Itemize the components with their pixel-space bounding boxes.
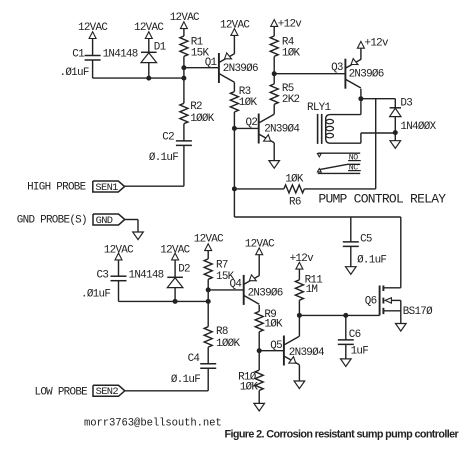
wire C3 to bus: [118, 281, 120, 302]
svg-text:C1: C1: [72, 48, 85, 60]
wire R9 to node: [258, 332, 260, 351]
svg-text:D1: D1: [154, 41, 167, 53]
ground C6: [341, 359, 352, 367]
value 15K (R7): [216, 271, 235, 283]
wire rail down to Q6 drain: [400, 217, 402, 288]
label Q2: [246, 117, 258, 129]
junction R6 left node: [232, 186, 237, 191]
junction bus-R8: [206, 299, 211, 304]
junction bus-R2: [181, 76, 186, 81]
wire Q4 emitter up: [258, 255, 260, 276]
svg-text:Q2: Q2: [246, 117, 258, 129]
wire gate node to C6: [345, 315, 347, 340]
svg-text:PUMP CONTROL RELAY: PUMP CONTROL RELAY: [318, 191, 446, 206]
value 1uF (C6): [351, 346, 369, 358]
wire D2 to bus: [174, 288, 176, 302]
wire R7 to node: [207, 279, 209, 290]
connector GND: [93, 214, 125, 227]
relay contact NC line: [318, 172, 360, 174]
wire SEN1 to C2: [125, 185, 184, 187]
svg-text:Ø.1uF: Ø.1uF: [171, 374, 200, 386]
wire coil bottom to D3 node: [361, 132, 395, 134]
svg-text:D2: D2: [178, 264, 190, 276]
value 10K (R3): [239, 97, 258, 109]
label R11: [305, 274, 324, 286]
svg-text:R8: R8: [216, 326, 228, 338]
wire GND tag: [125, 220, 138, 233]
label D3: [400, 98, 412, 110]
junction C6-gate: [343, 313, 348, 318]
capacitor C1: [85, 56, 101, 61]
connector SEN2: [93, 385, 125, 398]
label R2: [190, 101, 202, 113]
wire C1 to bus: [92, 60, 94, 78]
value .01uF (C1): [60, 67, 89, 79]
wire gate node to Q6: [299, 314, 379, 316]
label R7: [216, 260, 228, 272]
wire Q1 emitter up: [233, 35, 235, 54]
power 12VAC arrow (Q1): [231, 29, 238, 36]
wire bus C1-D1-R2 node: [93, 77, 184, 79]
power +12v label (R4): [278, 18, 303, 30]
label Q5: [270, 340, 282, 352]
power +12v arrow (R11): [296, 262, 303, 269]
junction R9-R10-Q5 base: [257, 348, 262, 353]
power 12VAC arrow (D1 column): [145, 32, 152, 39]
label GND PROBE(S): [17, 214, 87, 226]
label 1N4148 (D1): [103, 48, 138, 60]
svg-text:2N39Ø4: 2N39Ø4: [264, 123, 299, 135]
connector SEN1: [93, 181, 125, 194]
wire node to bus: [207, 290, 209, 302]
wire node to D3: [394, 99, 396, 108]
svg-text:12VAC: 12VAC: [245, 239, 275, 251]
wire R11 to gate node: [298, 300, 300, 315]
label D1: [154, 41, 167, 53]
wire SEN2 to C4: [125, 390, 208, 392]
label 2N3904 (Q5): [289, 347, 324, 359]
label Q3: [331, 62, 343, 74]
value 100K (R8): [216, 338, 241, 350]
label Q6: [365, 296, 377, 308]
svg-text:1M: 1M: [306, 284, 318, 296]
svg-text:1N4148: 1N4148: [129, 270, 164, 282]
svg-text:R6: R6: [289, 197, 301, 209]
svg-text:C6: C6: [349, 329, 361, 341]
label HIGH PROBE: [27, 181, 86, 193]
relay contact NO line: [318, 152, 360, 154]
transistor Q5 2N3904: [284, 336, 300, 366]
svg-text:12VAC: 12VAC: [170, 12, 200, 24]
wire coil bottom jog: [360, 133, 362, 143]
power 12VAC label (C1 column): [78, 22, 108, 34]
capacitor C6: [338, 340, 354, 345]
power +12v arrow (Q3): [357, 41, 364, 48]
svg-text:1N4148: 1N4148: [103, 48, 138, 60]
svg-text:2N39Ø6: 2N39Ø6: [223, 63, 258, 75]
label 2N3906 (Q3): [349, 69, 384, 81]
svg-text:Figure 2. Corrosion resistant: Figure 2. Corrosion resistant sump pump …: [225, 429, 460, 441]
value 0.1uF (C5): [357, 254, 386, 266]
junction R1-R2-Q1 base: [181, 65, 186, 70]
resistor R8: [204, 327, 212, 347]
wire node down to bottom rail: [233, 189, 235, 217]
wire D3 to relay bottom node: [394, 117, 396, 133]
resistor R11: [295, 280, 303, 300]
wire Q1 collector to R3: [233, 82, 235, 91]
power 12VAC label (Q1): [220, 20, 250, 32]
wire node to Q3 base: [274, 73, 345, 75]
power +12v label (Q3): [365, 37, 390, 49]
wire node to R6: [234, 188, 284, 190]
resistor R2: [180, 103, 188, 123]
wire C6 to ground: [345, 344, 347, 359]
power 12VAC arrow (C3 column): [115, 253, 122, 260]
wire node down to bus: [183, 68, 185, 78]
junction R11-Q5-gate: [297, 313, 302, 318]
label PUMP CONTROL RELAY: [318, 191, 446, 206]
svg-text:C5: C5: [360, 233, 372, 245]
label C6: [349, 329, 361, 341]
svg-text:1N4ØØX: 1N4ØØX: [400, 121, 436, 133]
wire bottom rail to Q6 drain: [234, 216, 400, 218]
label R5: [282, 83, 294, 95]
junction D2-bus: [173, 299, 178, 304]
wire bus to R8: [207, 301, 209, 326]
power 12VAC label (R1 column): [170, 12, 200, 24]
svg-text:+12v: +12v: [365, 37, 390, 49]
svg-text:1ØK: 1ØK: [282, 48, 301, 60]
svg-text:1ØK: 1ØK: [264, 319, 283, 331]
svg-text:HIGH PROBE: HIGH PROBE: [27, 181, 86, 193]
label Q1: [205, 57, 218, 69]
value 0.1uF (C4): [171, 374, 200, 386]
svg-text:12VAC: 12VAC: [194, 233, 224, 245]
value 1N400X (D3): [400, 121, 436, 133]
power 12VAC arrow (R7 column): [205, 244, 212, 251]
wire node to Q4 base: [208, 289, 244, 291]
wire Q5 emitter down: [298, 365, 300, 381]
svg-text:C4: C4: [188, 353, 200, 365]
power +12v arrow (R4): [271, 20, 278, 27]
label 2N3906 (Q1): [223, 63, 258, 75]
svg-text:SEN2: SEN2: [96, 386, 119, 398]
svg-text:1ØK: 1ØK: [285, 174, 304, 186]
svg-text:2K2: 2K2: [282, 94, 300, 106]
svg-text:1ØK: 1ØK: [240, 382, 259, 394]
label 2N3904 (Q2): [264, 123, 299, 135]
wire node to Q2 base: [234, 127, 258, 129]
wire node to R5: [273, 74, 275, 84]
ground relay bottom: [390, 141, 401, 149]
relay contact NO pivot: [317, 154, 321, 157]
resistor R5: [270, 84, 278, 104]
caption Figure 2: [225, 429, 460, 441]
resistor R3: [230, 92, 238, 112]
power 12VAC label (C3 column): [104, 244, 134, 256]
label R3: [239, 86, 251, 98]
wire lower bus: [119, 300, 209, 302]
svg-text:1ØØK: 1ØØK: [190, 113, 215, 125]
wire 12VAC to C1: [92, 39, 94, 56]
value 0.1uF (C2): [149, 152, 178, 164]
resistor R6: [284, 185, 304, 193]
svg-text:LOW PROBE: LOW PROBE: [35, 387, 88, 399]
svg-text:Ø.1uF: Ø.1uF: [357, 254, 386, 266]
ground Q6 source: [396, 324, 407, 332]
svg-text:SEN1: SEN1: [95, 182, 118, 194]
wire R10 to ground: [258, 391, 260, 404]
svg-text:BS17Ø: BS17Ø: [403, 306, 433, 318]
svg-text:GND: GND: [96, 215, 113, 227]
transistor Q1 2N3906: [219, 53, 235, 83]
power 12VAC label (D2 column): [160, 244, 190, 256]
wire coil top to node: [360, 99, 362, 115]
power 12VAC label (D1 column): [134, 22, 164, 34]
svg-text:1uF: 1uF: [351, 346, 369, 358]
wire node to Q1 base: [184, 67, 219, 69]
value 1M (R11): [306, 284, 318, 296]
wire relay top node: [361, 98, 395, 100]
resistor R4: [270, 36, 278, 56]
wire Q2 emitter down: [273, 143, 275, 161]
wire relay contact column: [375, 99, 377, 189]
svg-text:2N39Ø6: 2N39Ø6: [349, 69, 384, 81]
label R1: [191, 37, 204, 49]
wire Q3 collector down: [360, 89, 362, 99]
label R10: [238, 371, 257, 383]
svg-text:+12v: +12v: [290, 253, 315, 265]
svg-text:Q5: Q5: [270, 340, 282, 352]
junction R7-Q4 base: [206, 287, 211, 292]
svg-text:2N39Ø6: 2N39Ø6: [248, 287, 283, 299]
wire 12VAC to D1: [148, 39, 150, 53]
wire Q5 collector up: [298, 315, 300, 336]
label C4: [188, 353, 200, 365]
value 100K (R2): [190, 113, 215, 125]
svg-text:Q4: Q4: [230, 278, 242, 290]
power 12VAC arrow (R1 column): [180, 22, 187, 29]
transistor Q3 2N3906: [345, 59, 361, 89]
wire Q6 source to ground: [400, 300, 402, 323]
svg-text:D3: D3: [400, 98, 412, 110]
wire Q4 collector to R9: [258, 305, 260, 312]
svg-text:Q6: Q6: [365, 296, 377, 308]
junction R3-Q2 base: [232, 126, 237, 131]
ground Q2 emitter: [269, 161, 280, 169]
wire R6 to contact column: [304, 188, 375, 190]
label BS170 (Q6): [403, 306, 433, 318]
label 1N4148 (D2): [129, 270, 164, 282]
label R6: [289, 197, 301, 209]
wire R1 to node: [183, 56, 185, 67]
wire node to Q5 base: [259, 350, 284, 352]
label R4: [282, 37, 294, 49]
ground C5: [346, 267, 357, 275]
wire R4 to node: [273, 56, 275, 73]
junction R4-R5-Q3 base: [272, 71, 277, 76]
resistor R7: [204, 259, 212, 279]
label C3: [97, 270, 109, 282]
value 10K (R9): [264, 319, 283, 331]
ground GND probe: [133, 232, 144, 240]
diode D1 1N4148: [141, 52, 157, 62]
svg-text:1ØK: 1ØK: [239, 97, 258, 109]
label Q4: [230, 278, 242, 290]
label email: [84, 417, 222, 429]
resistor R9: [255, 311, 263, 331]
svg-text:Ø.1uF: Ø.1uF: [149, 152, 178, 164]
value 15K (R1): [191, 48, 210, 60]
wire Q2 collector to R5: [273, 104, 275, 114]
wire +12v to R4: [273, 26, 275, 36]
wire node down to R6: [233, 128, 235, 189]
label C5: [360, 233, 372, 245]
ground Q5 emitter: [294, 381, 305, 389]
power +12v label (R11): [290, 253, 315, 265]
resistor R1: [180, 36, 188, 56]
wire C2 to SEN1 wire: [183, 145, 185, 186]
svg-text:R5: R5: [282, 83, 294, 95]
wire node to R10: [258, 351, 260, 370]
power 12VAC arrow (Q4): [256, 248, 263, 255]
svg-text:RLY1: RLY1: [307, 102, 332, 114]
svg-text:morr3763@bellsouth.net: morr3763@bellsouth.net: [84, 417, 222, 429]
value 2K2 (R5): [282, 94, 300, 106]
value 10K (R6): [285, 174, 304, 186]
power 12VAC arrow (D2 column): [172, 253, 179, 260]
wire rail to C5: [350, 217, 352, 242]
relay coil RLY1: [326, 115, 361, 144]
value .01uF (C3): [81, 288, 110, 300]
svg-text:C3: C3: [97, 270, 109, 282]
power 12VAC label (R7 column): [194, 233, 224, 245]
wire 12VAC to D2: [174, 260, 176, 277]
svg-text:.Ø1uF: .Ø1uF: [81, 288, 110, 300]
transistor Q2 2N3904: [259, 114, 275, 144]
label D2: [178, 264, 190, 276]
label R9: [264, 309, 276, 321]
svg-text:R2: R2: [190, 101, 202, 113]
value 10K (R10): [240, 382, 259, 394]
relay contact armature: [319, 164, 360, 169]
diode D3 1N400X: [390, 108, 401, 117]
svg-text:.Ø1uF: .Ø1uF: [60, 67, 89, 79]
svg-text:R4: R4: [282, 37, 294, 49]
label NO: [348, 153, 361, 162]
value 10K (R4): [282, 48, 301, 60]
transistor Q6 BS170: [380, 286, 401, 316]
label NC: [348, 163, 361, 172]
junction D1-bus: [146, 76, 151, 81]
label C2: [162, 131, 174, 143]
svg-text:GND PROBE(S): GND PROBE(S): [17, 214, 87, 226]
capacitor C4: [200, 364, 216, 369]
wire node to ground: [394, 133, 396, 141]
resistor R10: [255, 370, 263, 390]
label LOW PROBE: [35, 387, 88, 399]
svg-text:Q1: Q1: [205, 57, 218, 69]
wire C5 to ground: [350, 246, 352, 266]
svg-text:12VAC: 12VAC: [220, 20, 250, 32]
svg-text:+12v: +12v: [278, 18, 303, 30]
svg-text:1ØØK: 1ØØK: [216, 338, 241, 350]
diode D2 1N4148: [167, 277, 183, 287]
wire R3 to Q2 base node: [233, 112, 235, 128]
label R8: [216, 326, 228, 338]
relay contact NC pivot: [317, 169, 321, 172]
wire R8 to C4: [207, 347, 209, 364]
relay core lines: [318, 114, 322, 144]
wire bus to R2: [183, 78, 185, 103]
wire R2 to C2: [183, 124, 185, 141]
power 12VAC label (Q4): [245, 239, 275, 251]
svg-text:R7: R7: [216, 260, 228, 272]
junction Q3 collector-relay: [358, 96, 363, 101]
power 12VAC arrow (C1 column): [89, 32, 96, 39]
label C1: [72, 48, 85, 60]
wire 12VAC to R7: [207, 251, 209, 259]
junction D3-relay bottom: [393, 130, 398, 135]
wire Q3 emitter up: [360, 48, 362, 59]
wire +12v to R11: [298, 269, 300, 280]
capacitor C5: [343, 242, 359, 247]
label 2N3906 (Q4): [248, 287, 283, 299]
wire 12VAC to C3: [118, 260, 120, 276]
capacitor C3: [111, 276, 127, 281]
svg-text:R1: R1: [191, 37, 204, 49]
svg-text:Q3: Q3: [331, 62, 343, 74]
transistor Q4 2N3906: [244, 275, 260, 305]
wire D1 to bus: [148, 63, 150, 79]
capacitor C2: [176, 141, 192, 146]
wire 12VAC to R1: [183, 29, 185, 36]
label RLY1: [307, 102, 332, 114]
svg-text:C2: C2: [162, 131, 174, 143]
ground R10: [254, 403, 265, 411]
svg-text:2N39Ø4: 2N39Ø4: [289, 347, 324, 359]
wire C4 to SEN2 wire: [207, 368, 209, 391]
